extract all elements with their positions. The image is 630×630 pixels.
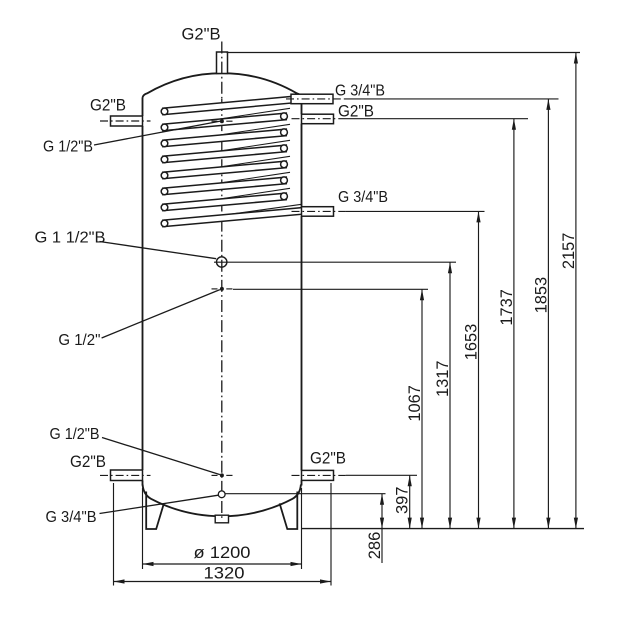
coil right end circles [281,113,288,200]
top nozzle G2"B [217,52,228,74]
leader G 1/2"B (bottom) [102,438,220,475]
dimension line 1067 [421,289,423,528]
coil tube 2 [162,113,286,131]
right leg [280,492,298,530]
ground reference line [302,528,585,530]
left leg [146,492,164,530]
svg-text:397: 397 [393,487,412,515]
connection circle G 1 1/2"B [217,257,227,267]
svg-text:G 1/2"B: G 1/2"B [43,139,93,156]
svg-text:1067: 1067 [405,385,424,422]
svg-text:1653: 1653 [462,324,481,361]
upper-left nozzle G2"B [111,116,143,126]
bottom seam reference line to 286 dim [225,493,385,495]
svg-text:G2"B: G2"B [338,102,374,121]
svg-text:G2"B: G2"B [90,96,126,115]
leader G 1 1/2"B [100,242,217,259]
top-right nozzle G 3/4"B [291,94,333,104]
drain fitting [215,515,228,523]
svg-text:1317: 1317 [433,360,452,397]
vertical center axis (dash-dot, behind coil) [221,99,223,521]
dimension line 1317 [449,262,451,528]
dimension line 1737 [513,119,515,529]
svg-text:1320: 1320 [204,564,245,583]
tank dome (top head) [143,73,302,97]
coil tube 8 (to lower right nozzle) [162,208,302,227]
node dot G 1/2" sensor [220,287,224,291]
leader G 3/4"B (bottom) [100,495,219,513]
dimension line 286 [381,494,383,563]
svg-text:G 3/4"B: G 3/4"B [335,83,385,100]
svg-text:1853: 1853 [531,277,550,314]
svg-text:286: 286 [365,532,384,560]
svg-text:G 3/4"B: G 3/4"B [46,509,97,526]
leader G 1/2"B (top) [94,121,220,145]
tank left wall [142,98,144,486]
svg-text:G2"B: G2"B [70,452,106,471]
svg-text:ø 1200: ø 1200 [194,543,251,562]
coil back passes (hidden-side lines) [165,108,302,223]
lower-right nozzle G2"B [302,470,334,480]
dimension line 2157 [575,53,577,529]
svg-text:G2"B: G2"B [182,25,221,44]
coil tube 1 (to top right nozzle) [162,96,302,115]
dimension line 1653 [478,211,480,528]
svg-text:1737: 1737 [497,289,516,326]
tank dished bottom [143,485,301,517]
upper-right nozzle G2"B [302,114,334,124]
svg-text:G 1/2"B: G 1/2"B [50,426,100,443]
coil tube 6 [162,177,286,195]
lower-left nozzle G2"B [111,470,143,481]
coil tube 3 [162,129,286,147]
svg-text:2157: 2157 [559,233,578,270]
svg-text:G2"B: G2"B [310,449,346,468]
dimension line 1853 [547,99,549,529]
coil tube 5 [162,161,286,179]
svg-text:G 1 1/2"B: G 1 1/2"B [35,230,106,247]
mid-right nozzle G 3/4"B [302,207,334,217]
vertical center axis upper segment (dash-dot) [221,42,223,100]
arrowheads [380,53,578,529]
diameter dimension 1200 [143,488,302,569]
svg-text:G 1/2": G 1/2" [58,332,100,349]
coil tube 7 [162,193,286,211]
dimension line 397 [409,475,411,528]
reference lines to dimension verticals [214,53,580,476]
node dot on coil axis [220,119,224,123]
overall width dimension 1320 [114,483,332,586]
svg-text:G 3/4"B: G 3/4"B [338,189,388,206]
leader G 1/2" [102,290,220,338]
node dot lower G 1/2"B [220,473,224,477]
tank right wall [301,104,303,486]
horizontal axis marks (dash-dot) [100,99,346,476]
connection circle bottom G 3/4"B [218,491,225,498]
coil left end circles [161,108,168,227]
coil tube 4 [162,145,286,163]
